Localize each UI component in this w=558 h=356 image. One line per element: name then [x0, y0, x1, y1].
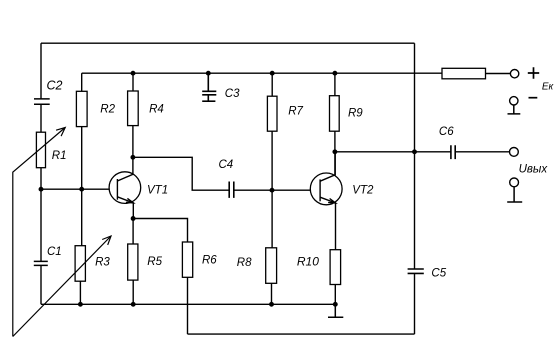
- node rail-R7 junction: [270, 71, 275, 76]
- node R8-ground bus junction: [269, 302, 274, 307]
- wire VT1 collector to C4: [133, 157, 229, 190]
- svg-text:VT1: VT1: [147, 185, 168, 197]
- wire to +Ek terminal: [486, 73, 511, 75]
- svg-text:R9: R9: [348, 107, 363, 119]
- node rail-R4 junction: [131, 71, 136, 76]
- wire R6 bottom lead crossing bus: [187, 277, 189, 334]
- capacitor C1: [34, 261, 48, 265]
- node C4-R7-R8 junction: [270, 188, 275, 193]
- node R3-ground bus junction: [78, 302, 83, 307]
- node VT1 collector junction: [130, 155, 135, 160]
- terminal circle Uout lower: [510, 178, 519, 187]
- wire R9 to VT2 collector: [334, 131, 336, 175]
- svg-text:R2: R2: [100, 104, 115, 116]
- svg-text:C4: C4: [219, 159, 234, 171]
- svg-text:R7: R7: [288, 106, 303, 118]
- wire bottom ground bus: [41, 303, 335, 305]
- resistor R3: [75, 246, 85, 282]
- svg-text:Ек: Ек: [542, 82, 555, 93]
- svg-text:R5: R5: [147, 256, 162, 268]
- wire R3 bottom lead: [79, 281, 81, 304]
- wire R5 bottom lead: [132, 280, 134, 304]
- resistor supply series (unlabeled): [442, 68, 486, 79]
- resistor R4: [128, 91, 139, 126]
- wire C2 top lead: [40, 43, 42, 99]
- capacitor C3: [202, 73, 216, 100]
- wire right vertical lower (C5 bottom): [414, 273, 416, 334]
- node VT1 emitter junction: [131, 216, 136, 221]
- capacitor C4: [229, 182, 234, 198]
- wire R8 bottom lead: [271, 283, 273, 304]
- node R5-ground bus junction: [131, 302, 136, 307]
- wire collector node to C6 branch: [335, 151, 415, 153]
- plus sign: [528, 67, 539, 78]
- wire VT2 emitter to R10: [335, 203, 337, 250]
- node rail-C3 junction: [206, 71, 211, 76]
- svg-text:VT2: VT2: [352, 184, 374, 196]
- wire R10 bottom lead: [334, 285, 336, 305]
- terminal circle Uout upper: [510, 148, 519, 157]
- wire emitter branch to R6: [133, 219, 187, 243]
- wire bottom lower horizontal: [188, 333, 415, 335]
- minus sign: [529, 97, 538, 99]
- node R1-C1-base junction: [39, 187, 44, 192]
- capacitor C6: [451, 145, 455, 159]
- wire C6 to Uout terminal: [455, 151, 509, 153]
- gang link and arrow of variable resistor R1: [13, 128, 65, 337]
- wire main supply rail: [82, 72, 442, 74]
- wire R7 top stub: [271, 73, 273, 96]
- wire top horizontal: [41, 42, 415, 44]
- resistor R2: [76, 91, 87, 126]
- wire C4 node to R8: [271, 190, 273, 248]
- terminal circle -Ek: [510, 97, 518, 105]
- ground below R10: [328, 304, 343, 317]
- svg-text:R10: R10: [297, 254, 319, 268]
- wire VT1 emitter lead: [132, 203, 134, 219]
- wire R9 top stub: [334, 73, 336, 96]
- resistor R5: [128, 244, 138, 280]
- resistor R8: [266, 248, 277, 283]
- node rail-R9 junction: [332, 71, 337, 76]
- capacitor C5: [408, 269, 424, 273]
- svg-text:Uвых: Uвых: [519, 163, 549, 175]
- arrow of variable resistor R3: [13, 236, 111, 337]
- wire C2-R1 lead: [40, 104, 42, 132]
- wire C4 to VT2 base: [234, 189, 310, 191]
- resistor R9: [330, 96, 340, 132]
- wire R4 top stub: [132, 73, 134, 91]
- svg-text:R1: R1: [52, 150, 67, 162]
- capacitor C2: [34, 99, 50, 104]
- node R10-ground bus junction: [333, 302, 338, 307]
- svg-text:C5: C5: [431, 267, 446, 279]
- svg-text:R4: R4: [149, 104, 164, 116]
- node right vertical C6 junction: [412, 149, 417, 154]
- svg-text:C2: C2: [47, 79, 63, 93]
- wire C6 left lead: [415, 151, 451, 153]
- terminal circle +Ek: [510, 70, 518, 78]
- svg-text:R6: R6: [202, 255, 217, 267]
- wire VT1 base: [41, 188, 109, 190]
- wire R2-R3 column: [81, 127, 83, 246]
- ground stub below -Ek terminal: [508, 105, 521, 114]
- wire R1-C1 lead: [40, 168, 42, 262]
- resistor R10: [330, 250, 341, 285]
- resistor R7: [267, 96, 277, 131]
- svg-text:C3: C3: [225, 88, 240, 100]
- transistor VT1: [109, 157, 141, 203]
- wire R4 to VT1 collector: [132, 126, 134, 158]
- wire right vertical upper (to C5 top): [414, 43, 416, 269]
- svg-text:C1: C1: [47, 246, 62, 258]
- svg-text:C6: C6: [439, 126, 454, 138]
- wire R7 to C4 node: [271, 131, 273, 190]
- svg-text:R8: R8: [237, 257, 252, 269]
- node VT2 collector junction: [332, 149, 337, 154]
- node R2-R3-base junction: [79, 187, 84, 192]
- resistor R1: [36, 132, 45, 168]
- resistor R6: [182, 242, 192, 277]
- wire R2 top stub: [81, 73, 83, 91]
- ground stub below Uout lower terminal: [507, 187, 522, 202]
- ground bar below C3: [202, 100, 215, 102]
- svg-text:R3: R3: [95, 256, 110, 268]
- wire emitter to R5: [132, 219, 134, 245]
- wire C1 bottom lead: [40, 265, 42, 304]
- transistor VT2: [310, 152, 342, 205]
